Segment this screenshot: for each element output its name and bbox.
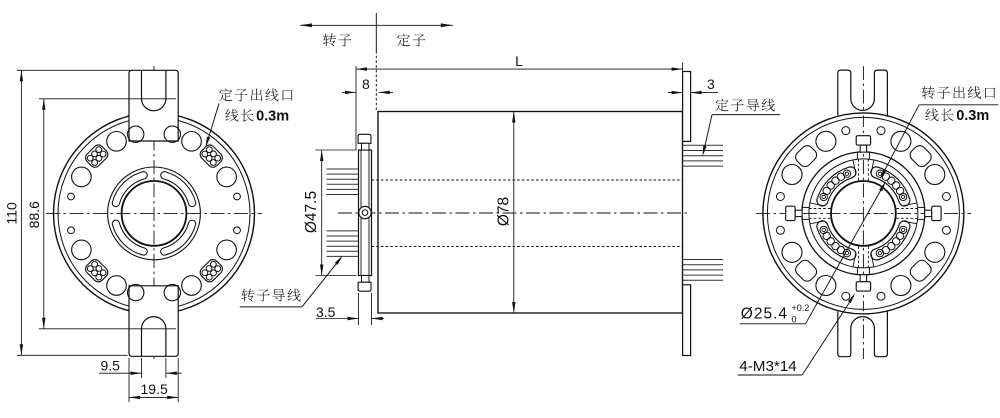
label screws: leader arrow bbox=[848, 293, 855, 303]
right view: channel hidden lines @270 bbox=[867, 246, 869, 267]
dim 19.5: dimension line bbox=[129, 396, 178, 398]
label bore dia: underline bbox=[740, 323, 806, 325]
svg-text:L: L bbox=[515, 53, 523, 69]
dim 9.5: right arrow bbox=[166, 372, 177, 375]
dim 110: bottom extension line bbox=[17, 354, 128, 356]
svg-text:3: 3 bbox=[707, 76, 715, 92]
dim 9.5: right arrow line bbox=[166, 372, 182, 374]
left view: flange hole @242.5 deg bbox=[107, 276, 127, 296]
label rotor cable exit: leader line bbox=[882, 105, 919, 176]
left view: small hole @348.5 deg bbox=[234, 227, 241, 234]
label stator (top) bbox=[397, 34, 410, 47]
left view: flange hole @297.5 deg bbox=[182, 276, 202, 296]
right view: M3 screw stem @270 bbox=[860, 275, 866, 282]
right view: inner rim circle bbox=[767, 117, 959, 309]
left view: small hole @168.5 deg bbox=[68, 193, 75, 200]
right view: oval hole @45 deg bbox=[908, 143, 934, 169]
svg-text:Ø47.5: Ø47.5 bbox=[303, 191, 320, 233]
svg-text:19.5: 19.5 bbox=[141, 381, 168, 397]
stator lead wires top bundle bbox=[683, 144, 724, 146]
right view: wire slot q0 bbox=[871, 167, 910, 206]
right view: channel hidden lines @90 bbox=[858, 159, 860, 180]
right view: M3 screw stem @180 bbox=[795, 210, 802, 216]
stator flange plate top bbox=[683, 72, 691, 142]
left view: flange hole @77 deg bbox=[164, 126, 180, 142]
left view: flange hole @283 deg bbox=[164, 284, 180, 300]
svg-text:3.5: 3.5 bbox=[316, 304, 336, 320]
right view: M3 screw stem @0 bbox=[925, 210, 932, 216]
label rotor (top) bbox=[323, 34, 336, 47]
dim 8: left arrow line bbox=[342, 91, 356, 93]
dim 88.6: bottom arrow bbox=[42, 318, 45, 329]
rotor center pivot inner circle bbox=[362, 210, 368, 216]
middle view: hidden bore line bottom bbox=[372, 246, 683, 248]
rotor lead wires bottom bundle bbox=[327, 230, 359, 232]
dim phi78: top arrow bbox=[512, 112, 515, 123]
dim 3: left arrow bbox=[672, 91, 683, 94]
left view: hub arc slot q1 bbox=[112, 172, 147, 207]
dim 8: right arrow bbox=[379, 91, 390, 94]
label bore dia: leader line bbox=[806, 185, 885, 324]
label stator cable exit: text line1 bbox=[219, 88, 232, 101]
dim 9.5: left arrow line bbox=[99, 372, 142, 374]
right view: slot end ticks q1 bbox=[853, 160, 856, 174]
dim phi47.5: top arrow bbox=[320, 150, 323, 161]
right view: small hole @11.5 deg bbox=[942, 193, 950, 201]
label rotor cable exit: text line2 cjk bbox=[925, 108, 938, 121]
right view: M3 screw head @0 bbox=[932, 206, 941, 220]
dim phi78: dimension line bbox=[513, 112, 515, 314]
right view: channel walls @270 bbox=[868, 268, 870, 275]
svg-text:Ø25.4: Ø25.4 bbox=[741, 306, 788, 323]
left view: cable exit stadium @225 deg bbox=[83, 257, 110, 284]
svg-text:Ø78: Ø78 bbox=[496, 197, 513, 226]
left view: small hole @191.5 deg bbox=[68, 227, 75, 234]
dim phi47.5: dimension line bbox=[321, 150, 323, 276]
stator lead wires bottom bundle bbox=[683, 259, 724, 261]
left view: hub arc slot q0 bbox=[161, 172, 196, 207]
stator flange plate bottom bbox=[683, 285, 691, 356]
dim 19.5: left arrow bbox=[129, 396, 140, 399]
right view: M3 screw head @90 bbox=[856, 136, 870, 145]
rotor top screw head bbox=[358, 134, 371, 143]
left view: hub outer circle bbox=[108, 167, 201, 260]
left view: cable exit stadium @315 deg bbox=[198, 257, 225, 284]
rotor/stator right arrowhead bbox=[441, 23, 453, 27]
label rotor leads: leader arrow bbox=[335, 255, 343, 265]
right view: flange hole @242.5 deg bbox=[816, 276, 836, 296]
dim 3.5: left arrow bbox=[348, 317, 359, 320]
right view: top shaft fork bbox=[838, 70, 888, 115]
right view: slot balls q0 bbox=[899, 193, 906, 200]
svg-text:88.6: 88.6 bbox=[26, 201, 42, 228]
right view: small hole @348.5 deg bbox=[942, 226, 950, 234]
label stator cable exit: text line2 cjk bbox=[225, 109, 238, 122]
label stator leads: underline bbox=[712, 114, 780, 116]
left view: flange hole @103 deg bbox=[128, 126, 144, 142]
dim L: left arrow bbox=[356, 67, 367, 70]
svg-text:110: 110 bbox=[4, 202, 20, 225]
svg-text:9.5: 9.5 bbox=[101, 357, 121, 373]
right view: flange hole @117.5 deg bbox=[816, 131, 836, 151]
right view: wire slot q3 bbox=[871, 221, 910, 260]
dim 3.5: right extension line bbox=[371, 293, 373, 325]
svg-text:0.3m: 0.3m bbox=[956, 108, 989, 124]
left view: bottom tab U-slot bbox=[142, 317, 166, 357]
dim phi47.5: top extension line bbox=[315, 149, 356, 151]
middle view: rotor/stator divider dotted bbox=[375, 51, 377, 112]
left view: outer flange circle bbox=[54, 113, 255, 314]
svg-text:0: 0 bbox=[792, 315, 797, 325]
dim 110: dimension line bbox=[20, 70, 22, 355]
right view: bottom shaft fork bbox=[838, 311, 888, 356]
rotor bottom screw neck bbox=[362, 276, 370, 283]
dim 3.5: left arrow line bbox=[316, 318, 359, 320]
label screws: leader line bbox=[802, 296, 854, 375]
left view: hub arc slot q3 bbox=[161, 220, 196, 255]
dim 8: right arrow line bbox=[379, 91, 393, 93]
rotor flange bar bbox=[359, 150, 372, 276]
label rotor leads: underline bbox=[240, 306, 302, 308]
middle view: rotor/stator divider solid top bbox=[375, 13, 377, 51]
right view: M3 screw stem @90 bbox=[860, 145, 866, 152]
right view: channel walls @90 bbox=[856, 152, 858, 159]
rotor bottom screw head bbox=[358, 282, 371, 291]
right view: flange hole @208.6 deg bbox=[782, 242, 802, 262]
right view: M3 screw head @180 bbox=[786, 206, 795, 220]
right view: vertical centerline bbox=[862, 66, 864, 359]
right view: flange hole @28.6 deg bbox=[925, 165, 945, 185]
left view: small hole @11.5 deg bbox=[234, 193, 241, 200]
right view: channel hidden lines @180 bbox=[809, 217, 830, 219]
label stator leads: leader line bbox=[703, 115, 712, 153]
right view: hub inner circle bbox=[809, 159, 918, 268]
dim L: dimension line bbox=[356, 68, 683, 70]
dim 3: left arrow line bbox=[668, 92, 683, 94]
dim phi78: bottom arrow bbox=[512, 302, 515, 313]
dim L: left extension line bbox=[355, 66, 357, 150]
label bore dia: leader arrow bbox=[879, 181, 886, 191]
left view: inner rim circle bbox=[58, 117, 250, 309]
right view: channel hidden lines @0 bbox=[896, 208, 917, 210]
middle view: centerline bbox=[338, 212, 690, 214]
right view: channel walls @0 bbox=[918, 206, 925, 208]
dim 110: top extension line bbox=[17, 69, 133, 71]
right view: oval hole @135 deg bbox=[793, 143, 819, 169]
right view: oval hole @225 deg bbox=[793, 258, 819, 284]
right view: flange hole @297.5 deg bbox=[891, 276, 911, 296]
right view: flange hole @62.5 deg bbox=[891, 131, 911, 151]
left view: cable exit stadium @45 deg bbox=[198, 143, 225, 170]
svg-text:0.3m: 0.3m bbox=[256, 109, 289, 125]
left view: flange hole @153.3 deg bbox=[72, 167, 92, 187]
right view: small hole @191.5 deg bbox=[776, 226, 784, 234]
right view: small hole @258 deg bbox=[842, 292, 850, 300]
label rotor leads: leader line bbox=[302, 258, 341, 307]
left view: top tab U-slot bbox=[142, 70, 166, 111]
right view: slot end ticks q0 bbox=[903, 203, 917, 206]
right view: slot end ticks q2 bbox=[810, 221, 824, 224]
dim 8: left arrow bbox=[345, 91, 356, 94]
dim 110: top arrow bbox=[20, 70, 23, 81]
left view: flange hole @26.7 deg bbox=[217, 167, 237, 187]
left view: flange hole @117.5 deg bbox=[107, 132, 127, 152]
svg-text:+0.2: +0.2 bbox=[792, 303, 810, 313]
dim 19.5: right extension line bbox=[177, 358, 179, 402]
right view: outer circle bbox=[763, 113, 964, 314]
dim 3: right arrow bbox=[691, 91, 702, 94]
rotor flange bar inner right line bbox=[368, 150, 370, 276]
dim 9.5: right extension line bbox=[165, 358, 167, 378]
label screws: underline bbox=[738, 374, 802, 376]
label stator leads: text bbox=[716, 99, 729, 112]
dim 9.5: left arrow bbox=[131, 372, 142, 375]
dim 3.5: right arrow bbox=[372, 317, 383, 320]
svg-text:4-M3*14: 4-M3*14 bbox=[739, 358, 796, 375]
dim 19.5: right arrow bbox=[167, 396, 178, 399]
rotor lead wires top bundle bbox=[327, 168, 359, 170]
left view: vertical centerline bbox=[153, 66, 155, 359]
dim 88.6: top extension line bbox=[39, 98, 176, 100]
dim 9.5: left extension line bbox=[141, 358, 143, 378]
right view: flange hole @331.4 deg bbox=[925, 242, 945, 262]
label stator cable exit: leader line bbox=[206, 104, 219, 146]
right view: slot balls q3 bbox=[876, 249, 883, 256]
right view: small hole @282 deg bbox=[877, 292, 885, 300]
rotor top screw neck bbox=[362, 143, 370, 150]
left view: flange hole @333.3 deg bbox=[217, 240, 237, 260]
right view: flange hole @151.4 deg bbox=[782, 165, 802, 185]
left view: flange hole @62.5 deg bbox=[182, 132, 202, 152]
right view: wire slot q2 bbox=[817, 221, 856, 260]
middle view: hidden bore line top bbox=[372, 179, 683, 181]
dim 88.6: dimension line bbox=[43, 99, 45, 329]
dim 88.6: bottom extension line bbox=[39, 328, 176, 330]
left view: flange hole @257 deg bbox=[128, 284, 144, 300]
dim phi47.5: bottom arrow bbox=[320, 265, 323, 276]
dim 3.5: right arrow line bbox=[372, 318, 385, 320]
left view: top mounting tab bbox=[129, 70, 178, 141]
svg-text:8: 8 bbox=[362, 76, 370, 92]
right view: bore circle bbox=[831, 181, 896, 246]
left view: horizontal centerline bbox=[46, 212, 262, 214]
dim 3: right arrow line bbox=[691, 92, 718, 94]
label rotor cable exit: underline bbox=[919, 104, 998, 106]
right view: oval hole @315 deg bbox=[908, 258, 934, 284]
middle view: cylinder body bbox=[378, 112, 683, 314]
dim 88.6: top arrow bbox=[42, 99, 45, 110]
left view: flange hole @206.7 deg bbox=[72, 240, 92, 260]
label rotor leads: text bbox=[241, 289, 254, 302]
label stator leads: leader arrow bbox=[703, 146, 707, 157]
dim L: right arrow bbox=[672, 67, 683, 70]
right view: horizontal centerline bbox=[756, 212, 971, 214]
right view: channel walls @180 bbox=[802, 218, 809, 220]
left view: hub arc slot q2 bbox=[112, 220, 147, 255]
dim phi47.5: bottom extension line bbox=[315, 275, 356, 277]
right view: small hole @102 deg bbox=[842, 127, 850, 135]
right view: slot balls q2 bbox=[820, 226, 827, 233]
dim 19.5: left extension line bbox=[128, 358, 130, 402]
right view: small hole @168.5 deg bbox=[776, 193, 784, 201]
dim 3.5: left extension line bbox=[358, 293, 360, 325]
dim 110: bottom arrow bbox=[20, 344, 23, 355]
rotor flange bar inner left line bbox=[360, 150, 362, 276]
dim L: right extension line bbox=[682, 63, 684, 72]
right view: small hole @78 deg bbox=[877, 127, 885, 135]
label rotor cable exit: text line1 bbox=[922, 86, 935, 99]
left view: bottom mounting tab bbox=[129, 286, 178, 357]
right view: slot balls q1 bbox=[843, 170, 850, 177]
right view: hub outer circle bbox=[802, 152, 925, 275]
right view: slot end ticks q3 bbox=[871, 253, 874, 267]
left view: bore circle bbox=[122, 181, 187, 246]
left view: cable exit stadium @135 deg bbox=[83, 143, 110, 170]
label stator cable exit: leader arrow bbox=[205, 137, 210, 148]
right view: M3 screw head @270 bbox=[856, 282, 870, 291]
rotor/stator left arrowhead bbox=[300, 23, 312, 27]
right view: wire slot q1 bbox=[817, 167, 856, 206]
rotor center pivot outer circle bbox=[359, 206, 371, 218]
rotor/stator arrows line bbox=[300, 24, 453, 26]
label rotor cable exit: leader arrow bbox=[880, 169, 887, 180]
